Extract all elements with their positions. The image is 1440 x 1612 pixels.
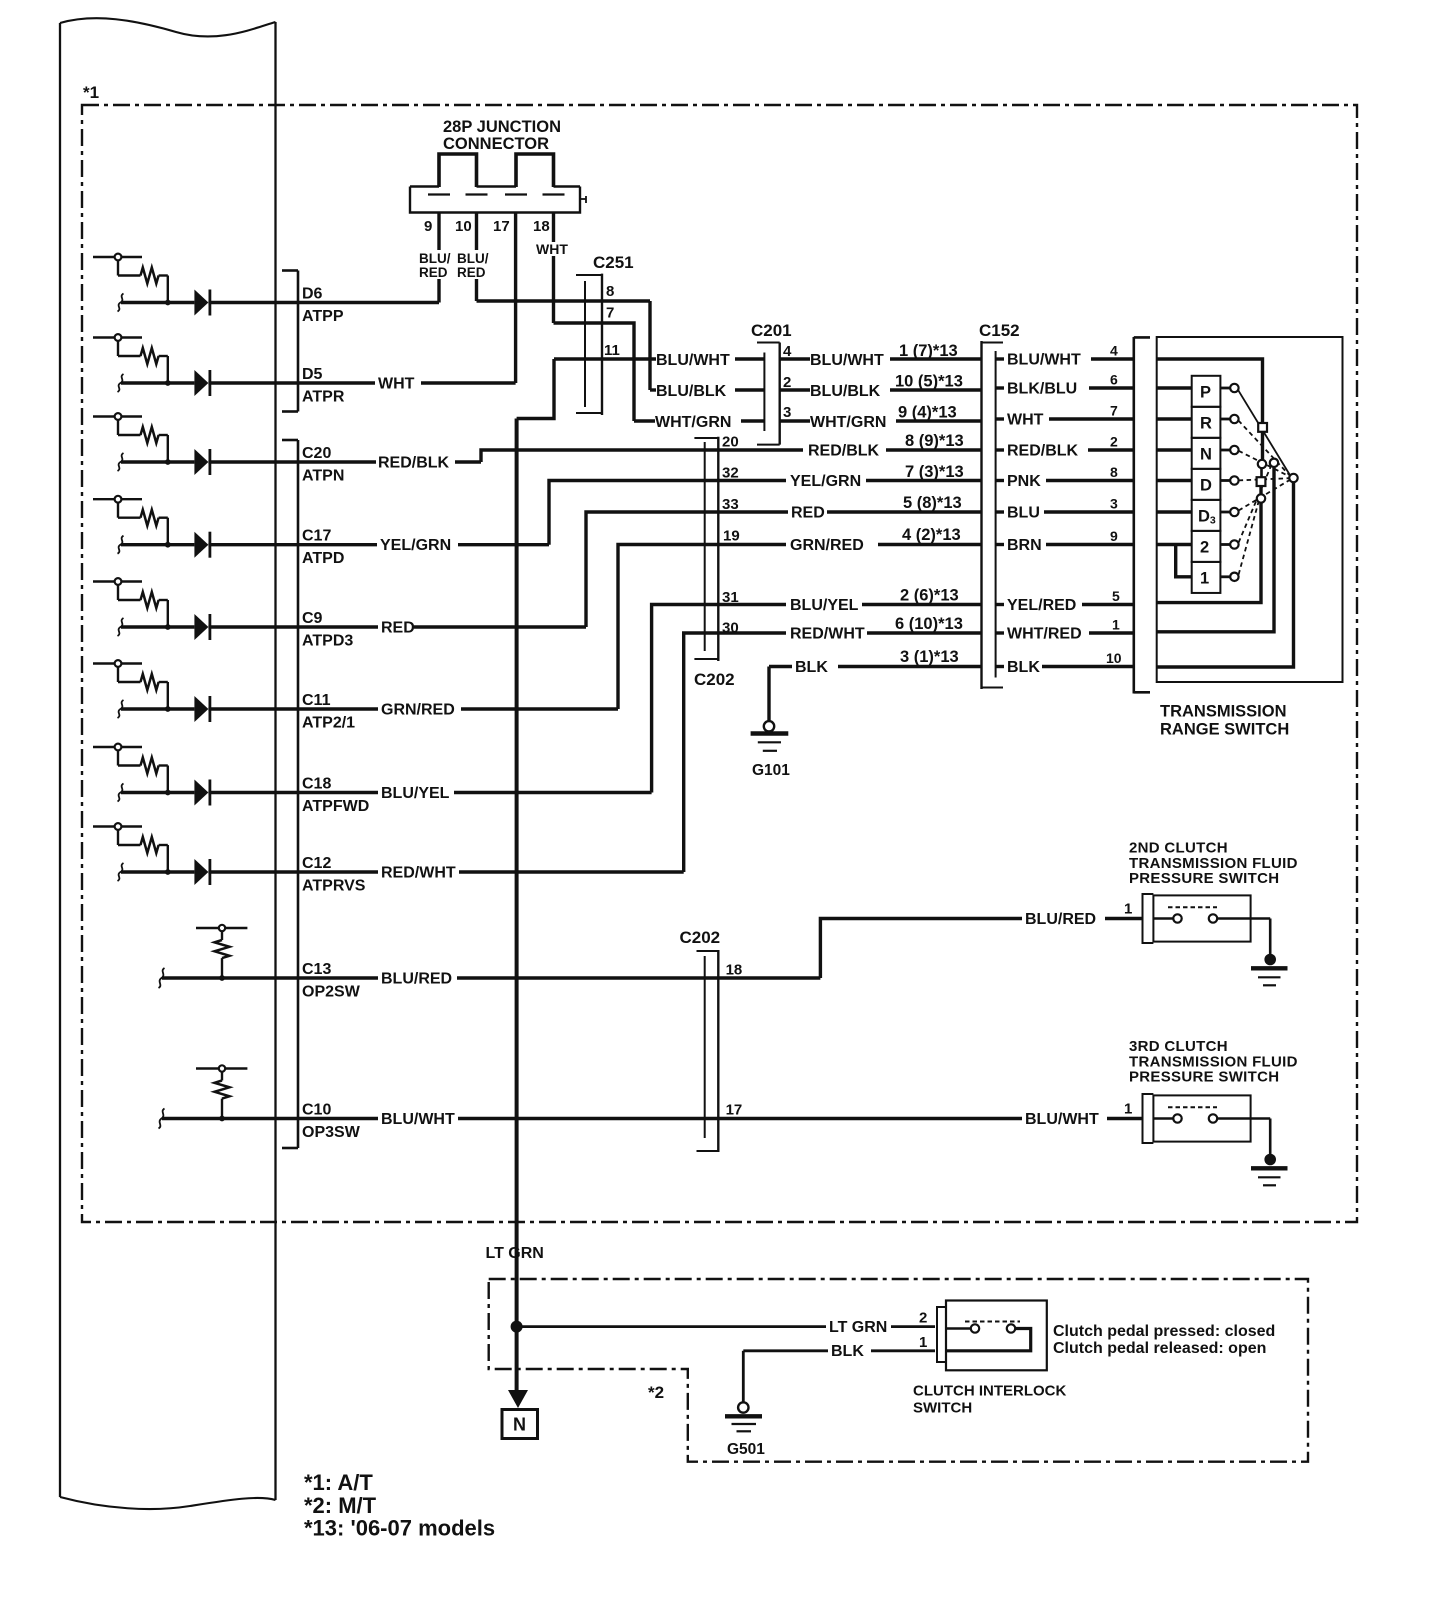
resistor R7 (pull-up, C18) — [141, 758, 159, 774]
svg-text:P: P — [1200, 383, 1211, 401]
wire pin11 jog to trunk — [517, 359, 554, 419]
svg-text:BLU/WHT: BLU/WHT — [1007, 352, 1081, 369]
svg-text:4 (2)*13: 4 (2)*13 — [902, 526, 961, 544]
wire pin9 to ATPP row — [437, 213, 440, 303]
gear box D — [1192, 469, 1221, 500]
terminal circle C11 — [115, 660, 122, 667]
svg-text:C18: C18 — [302, 776, 331, 793]
wire circle-to-resistor C12 — [117, 830, 119, 845]
svg-text:9: 9 — [1110, 528, 1118, 544]
28P junction connector body — [410, 187, 580, 213]
svg-text:ATPR: ATPR — [302, 389, 345, 406]
terminal circle C10 — [219, 1065, 225, 1071]
svg-text:PRESSURE SWITCH: PRESSURE SWITCH — [1129, 870, 1279, 887]
switch arm R (dashed) — [1238, 421, 1290, 476]
svg-text:OP2SW: OP2SW — [302, 984, 361, 1001]
PCM connector bracket (C20..C10) — [297, 440, 300, 1148]
svg-text:3: 3 — [783, 404, 791, 421]
junction node D6 — [165, 300, 171, 306]
wire row C9 (left of diode) — [121, 625, 194, 628]
gear box 1 — [1192, 562, 1221, 593]
ground G101 — [764, 721, 774, 731]
svg-text:17: 17 — [726, 1102, 743, 1119]
resistor R4 (pull-up, C17) — [141, 510, 159, 526]
*1 A/T dash-dot border box — [82, 105, 1357, 1222]
svg-text:RED/WHT: RED/WHT — [790, 626, 865, 643]
wire into D contact — [1157, 479, 1192, 482]
wire circle-to-resistor C13 — [221, 931, 223, 940]
wire-break squiggle D6 — [118, 294, 124, 312]
diode D4 (C17 driver) — [194, 532, 208, 558]
svg-text:C202: C202 — [680, 928, 721, 947]
clutch interlock internal wire pin1 — [946, 1329, 1031, 1351]
svg-text:ATPRVS: ATPRVS — [302, 878, 366, 895]
torn page strip right edge — [274, 22, 276, 1500]
svg-text:28P JUNCTION: 28P JUNCTION — [443, 118, 561, 136]
wire pin1 row (WHT/RED) inside box — [1157, 467, 1274, 632]
wire row C18 (left of diode) — [121, 791, 194, 794]
svg-text:PRESSURE SWITCH: PRESSURE SWITCH — [1129, 1069, 1279, 1086]
wire diode-to-pin C20 — [208, 460, 298, 463]
wire-break squiggle C18 — [118, 784, 124, 802]
svg-text:WHT: WHT — [1007, 412, 1044, 429]
svg-text:2 (6)*13: 2 (6)*13 — [900, 587, 959, 605]
terminal circle C20 — [115, 413, 122, 420]
svg-text:GRN/RED: GRN/RED — [790, 537, 864, 554]
wire circle-to-resistor C11 — [117, 667, 119, 682]
wire GRN/RED row (C11/ATP2-1 to C202-19) — [298, 707, 378, 710]
svg-text:R: R — [1200, 414, 1212, 432]
wire resistor-to-node C11 — [159, 681, 168, 683]
svg-text:LT GRN: LT GRN — [829, 1319, 887, 1336]
wire to ground (3rd clutch sw) — [1269, 1119, 1272, 1156]
wire circle-to-resistor C17 — [117, 503, 119, 518]
diode D6 (C11 driver) — [194, 696, 208, 722]
wire color BRN (C152 pin 9) — [996, 543, 1004, 546]
resistor R2 (pull-up, D5) — [141, 348, 159, 364]
switch arm 1 (dashed) — [1239, 502, 1259, 575]
svg-text:BLU/BLK: BLU/BLK — [810, 383, 881, 400]
wire branch BRN to 1 contact — [1176, 545, 1192, 577]
svg-text:BLU/: BLU/ — [419, 251, 451, 266]
wire diode-to-pin C9 — [208, 625, 298, 628]
svg-text:WHT: WHT — [378, 376, 415, 393]
wire row C17 (left of diode) — [121, 543, 194, 546]
connector C251 — [584, 281, 586, 407]
svg-text:6: 6 — [1110, 372, 1118, 388]
wire diode-to-pin C17 — [208, 543, 298, 546]
wire RED/WHT row (C12/ATPRVS to C202-30) — [298, 870, 378, 873]
wire color WHT/RED (C152 pin 1) — [996, 631, 1004, 634]
switch arm D (dashed) — [1239, 478, 1290, 480]
driver cell D6 pull-up top rail — [93, 256, 142, 258]
wire trunk LT GRN vertical — [515, 419, 519, 1392]
wire BLU/RED row to C251 pin 8 — [477, 299, 651, 302]
svg-text:8: 8 — [1110, 464, 1118, 480]
3rd clutch switch moving contact (dashed) — [1168, 1106, 1217, 1108]
svg-text:20: 20 — [722, 434, 739, 451]
wire diode-to-pin D6 — [208, 301, 298, 304]
PCM connector bracket (D6,D5) — [297, 271, 300, 412]
wire pin18 WHT drop — [552, 213, 555, 323]
junction node C11 — [165, 706, 171, 712]
switch arm D3 (dashed) — [1239, 480, 1290, 511]
gear box P — [1192, 376, 1221, 407]
svg-text:3RD CLUTCH: 3RD CLUTCH — [1129, 1038, 1228, 1055]
resistor R1 (pull-up, D6) — [141, 268, 159, 284]
svg-text:RED/BLK: RED/BLK — [808, 443, 880, 460]
wire row WHT/GRN (C251-7 to C201-3) — [634, 419, 655, 422]
svg-text:N: N — [513, 1415, 526, 1435]
3rd clutch switch connector bracket — [1142, 1093, 1144, 1144]
wire color BLK (C152 pin 10) — [996, 665, 1004, 668]
svg-text:ATPD3: ATPD3 — [302, 633, 353, 650]
svg-text:19: 19 — [723, 528, 740, 545]
junction node C13 — [219, 975, 225, 981]
svg-text:C13: C13 — [302, 961, 331, 978]
wire BLK drop to G501 — [742, 1351, 745, 1403]
wire BLU/RED row (C13/OP2SW) — [298, 976, 378, 979]
connector C152 — [980, 341, 982, 689]
driver cell C12 pull-up top rail — [93, 825, 142, 827]
svg-text:D6: D6 — [302, 286, 323, 303]
svg-text:RED: RED — [381, 620, 415, 637]
svg-text:BLU/: BLU/ — [457, 251, 489, 266]
svg-text:BLU: BLU — [1007, 505, 1040, 522]
wire BLU/YEL row (C18/ATPFWD to C202-31) — [298, 791, 378, 794]
wire resistor-to-node C9 — [159, 599, 168, 601]
resistor R9 (pull-up, C13) — [215, 940, 230, 958]
wire pin5 row (YEL/RED) inside box — [1157, 503, 1261, 603]
svg-text:BLU/YEL: BLU/YEL — [381, 785, 450, 802]
pivot circle I — [1270, 459, 1278, 467]
svg-text:C11: C11 — [302, 692, 331, 709]
wire BLU/WHT row (C10/OP3SW) — [298, 1117, 378, 1120]
wire pivot H to square 2 — [1260, 468, 1263, 477]
diode D5 (C9 driver) — [194, 614, 208, 640]
wire into 2 contact (BRN) — [1157, 543, 1192, 546]
wire circle-to-resistor C10 — [221, 1072, 223, 1081]
svg-text:*2: *2 — [648, 1383, 664, 1402]
terminal circle C18 — [115, 744, 122, 751]
connector C202 (upper) — [704, 442, 706, 651]
pivot circle L — [1257, 494, 1265, 502]
wire resistor-to-node C12 — [159, 844, 168, 846]
wire into D3 contact — [1157, 510, 1192, 513]
wire-break squiggle C12 — [118, 863, 124, 881]
arrow to N — [508, 1390, 528, 1408]
wire row C20 (left of diode) — [121, 460, 194, 463]
resistor R3 (pull-up, C20) — [141, 427, 159, 443]
wire color BLU/WHT (C152 pin 4) — [996, 357, 1004, 360]
wire C251 pin8 drop to BLU/BLK — [648, 301, 651, 390]
switch-sense cell C13 top rail — [196, 927, 247, 929]
wire-break squiggle C20 — [118, 453, 124, 471]
svg-text:10: 10 — [1106, 650, 1122, 666]
svg-text:8 (9)*13: 8 (9)*13 — [905, 432, 964, 450]
svg-text:ATPP: ATPP — [302, 308, 344, 325]
wire into P contact — [1157, 386, 1192, 389]
svg-text:BLU/RED: BLU/RED — [1025, 911, 1096, 928]
2nd clutch switch connector bracket — [1142, 893, 1144, 944]
svg-text:6 (10)*13: 6 (10)*13 — [895, 615, 963, 633]
wire BLK row to clutch interlock switch — [743, 1349, 828, 1352]
svg-text:11: 11 — [604, 342, 620, 359]
svg-text:BLU/WHT: BLU/WHT — [656, 352, 730, 369]
svg-text:2: 2 — [1200, 538, 1209, 556]
driver cell C17 pull-up top rail — [93, 498, 142, 500]
wire row BLU/BLK (C251-8 to C201-2) — [650, 388, 656, 391]
svg-text:C10: C10 — [302, 1102, 331, 1119]
svg-text:BLU/WHT: BLU/WHT — [381, 1111, 455, 1128]
node N box — [502, 1410, 538, 1439]
fixed contact D3 — [1220, 511, 1230, 514]
wire row D5 (left of diode) — [121, 381, 194, 384]
svg-text:PNK: PNK — [1007, 473, 1041, 490]
wire-break squiggle C9 — [118, 618, 124, 636]
wire D6/ATPP row to pin 9 — [298, 301, 439, 304]
switch arm 2 (dashed) — [1239, 466, 1271, 543]
gear box R — [1192, 407, 1221, 438]
wire LT GRN row to clutch interlock switch — [517, 1325, 826, 1328]
wire D5/ATPR WHT row — [298, 381, 375, 384]
junction node D5 — [165, 380, 171, 386]
svg-text:SWITCH: SWITCH — [913, 1400, 972, 1417]
svg-text:18: 18 — [726, 962, 743, 979]
junction connector contact ticks — [428, 193, 450, 195]
gear box N — [1192, 438, 1221, 469]
wire resistor-to-node D6 — [159, 274, 168, 276]
driver cell C18 pull-up top rail — [93, 746, 142, 748]
svg-text:1: 1 — [1112, 617, 1120, 633]
svg-text:5 (8)*13: 5 (8)*13 — [903, 494, 962, 512]
junction connector bridge bus 17-18 — [516, 154, 554, 187]
switch-sense cell C10 top rail — [196, 1067, 247, 1069]
ground (3rd clutch switch) — [1264, 1154, 1276, 1166]
wire color YEL/RED (C152 pin 5) — [996, 603, 1004, 606]
wire resistor-to-node C20 — [159, 434, 168, 436]
svg-text:ATP2/1: ATP2/1 — [302, 715, 355, 732]
range switch connector bracket — [1133, 337, 1136, 694]
junction node C18 — [165, 790, 171, 796]
svg-text:*1: *1 — [83, 83, 99, 102]
wire-break squiggle C17 — [118, 536, 124, 554]
svg-text:ATPFWD: ATPFWD — [302, 798, 369, 815]
junction node C9 — [165, 624, 171, 630]
wire row D6 (left of diode) — [121, 301, 194, 304]
svg-text:3 (1)*13: 3 (1)*13 — [900, 648, 959, 666]
diode D1 (D6 driver) — [194, 290, 208, 316]
wire pin17 drop to ATPR row — [514, 213, 517, 383]
*2 M/T dash-dot border (notched) — [489, 1279, 1308, 1462]
resistor R6 (pull-up, C11) — [141, 674, 159, 690]
resistor R10 (pull-up, C10) — [215, 1081, 230, 1099]
svg-text:BLU/YEL: BLU/YEL — [790, 597, 859, 614]
svg-text:2: 2 — [1110, 434, 1118, 450]
wire resistor-to-node C18 — [159, 764, 168, 766]
wire row C10 — [162, 1117, 298, 1120]
driver cell C9 pull-up top rail — [93, 580, 142, 582]
svg-text:D: D — [1200, 476, 1212, 494]
svg-text:*13: '06-07 models: *13: '06-07 models — [304, 1516, 495, 1541]
svg-text:D5: D5 — [302, 366, 323, 383]
svg-text:BLK: BLK — [831, 1343, 864, 1360]
svg-text:RED/WHT: RED/WHT — [381, 865, 456, 882]
2nd clutch switch moving contact (dashed) — [1168, 906, 1217, 908]
wire WHT/GRN (C201-3 to C152-9) — [780, 419, 810, 422]
svg-text:YEL/RED: YEL/RED — [1007, 597, 1076, 614]
wire C251 pin7 to WHT/GRN — [554, 323, 635, 421]
svg-text:1: 1 — [1200, 569, 1209, 587]
wire row C12 (left of diode) — [121, 870, 194, 873]
svg-text:7: 7 — [606, 305, 614, 322]
svg-text:1 (7)*13: 1 (7)*13 — [899, 342, 958, 360]
svg-text:1: 1 — [1124, 901, 1132, 918]
wire circle-to-resistor D5 — [117, 341, 119, 356]
3rd clutch switch box — [1153, 1095, 1250, 1141]
terminal circle D6 — [115, 254, 122, 261]
moving contact square (P arm) — [1258, 423, 1267, 432]
svg-text:WHT/GRN: WHT/GRN — [810, 414, 886, 431]
terminal circle C12 — [115, 823, 122, 830]
svg-text:RED: RED — [419, 265, 448, 280]
wire BLK drop to G101 — [767, 667, 770, 722]
svg-text:LT GRN: LT GRN — [486, 1245, 544, 1262]
fixed contact 1 — [1220, 575, 1230, 578]
wire into R contact — [1157, 417, 1192, 420]
wire-break squiggle C11 — [118, 700, 124, 718]
wire circle-to-resistor C18 — [117, 750, 119, 765]
wire RED row (C9/ATPD3 to C202-33) — [298, 625, 378, 628]
pivot circle J — [1289, 474, 1297, 482]
svg-text:5: 5 — [1112, 588, 1120, 604]
wire square2 to pivot L — [1259, 486, 1262, 495]
svg-text:G101: G101 — [752, 762, 790, 779]
svg-text:GRN/RED: GRN/RED — [381, 702, 455, 719]
diode D2 (D5 driver) — [194, 370, 208, 396]
junction dot trunk/LT GRN — [511, 1321, 523, 1333]
diode D3 (C20 driver) — [194, 449, 208, 475]
clutch interlock switch box — [946, 1301, 1047, 1371]
svg-text:C12: C12 — [302, 855, 331, 872]
2nd clutch switch contact circles — [1153, 917, 1173, 920]
junction node C17 — [165, 542, 171, 548]
ground (2nd clutch switch) — [1264, 954, 1276, 966]
svg-text:WHT: WHT — [536, 241, 568, 257]
wire BLK row (G101 to C152-3) — [769, 665, 792, 668]
wire circle-to-resistor C9 — [117, 585, 119, 600]
svg-text:30: 30 — [722, 620, 739, 637]
svg-text:RED/BLK: RED/BLK — [378, 455, 450, 472]
svg-text:C251: C251 — [593, 253, 634, 272]
svg-text:CLUTCH INTERLOCK: CLUTCH INTERLOCK — [913, 1383, 1066, 1400]
wire row C11 (left of diode) — [121, 707, 194, 710]
connector C202 (lower) — [704, 956, 706, 1138]
wire to ground (2nd clutch sw) — [1269, 919, 1272, 956]
fixed contact D — [1220, 479, 1230, 482]
svg-text:10: 10 — [455, 218, 472, 235]
svg-text:17: 17 — [493, 218, 510, 235]
svg-text:YEL/GRN: YEL/GRN — [790, 473, 861, 490]
svg-text:BLU/WHT: BLU/WHT — [810, 352, 884, 369]
wire row C13 — [162, 976, 298, 979]
driver cell C11 pull-up top rail — [93, 662, 142, 664]
svg-text:YEL/GRN: YEL/GRN — [380, 537, 451, 554]
wire BLU/BLK (C201-2 to C152-10) — [780, 388, 810, 391]
svg-text:33: 33 — [722, 496, 739, 513]
svg-text:BLU/BLK: BLU/BLK — [656, 383, 727, 400]
driver cell C20 pull-up top rail — [93, 415, 142, 417]
wire resistor-to-node D5 — [159, 355, 168, 357]
svg-text:RED: RED — [457, 265, 486, 280]
clutch interlock moving contact (dashed) — [965, 1321, 1020, 1323]
svg-text:RED: RED — [791, 505, 825, 522]
svg-text:31: 31 — [722, 589, 739, 606]
svg-text:32: 32 — [722, 465, 739, 482]
fixed contact R — [1220, 418, 1230, 421]
gear box D3 — [1192, 500, 1221, 531]
resistor R5 (pull-up, C9) — [141, 592, 159, 608]
svg-text:BRN: BRN — [1007, 537, 1042, 554]
wire YEL/GRN row (C17/ATPD to C202-32) — [298, 543, 377, 546]
wire circle-to-resistor C20 — [117, 420, 119, 435]
resistor R8 (pull-up, C12) — [141, 837, 159, 853]
wire diode-to-pin D5 — [208, 381, 298, 384]
wire BLU/WHT (C201-4 to C152-1) — [780, 357, 810, 360]
svg-text:1: 1 — [919, 1334, 927, 1351]
gear box 2 — [1192, 531, 1221, 562]
svg-text:OP3SW: OP3SW — [302, 1124, 361, 1141]
torn page strip bottom wavy edge — [60, 1497, 276, 1509]
svg-text:BLU/RED: BLU/RED — [381, 971, 452, 988]
wire square to pivot H — [1261, 432, 1264, 460]
svg-text:10 (5)*13: 10 (5)*13 — [895, 373, 963, 391]
transmission range switch box — [1157, 337, 1343, 682]
svg-text:2: 2 — [919, 1310, 927, 1327]
junction connector right notch — [580, 198, 586, 200]
driver cell D5 pull-up top rail — [93, 336, 142, 338]
diode D8 (C12 driver) — [194, 859, 208, 885]
wire diode-to-pin C12 — [208, 870, 298, 873]
wire color BLK/BLU (C152 pin 6) — [996, 386, 1004, 389]
svg-text:C152: C152 — [979, 321, 1020, 340]
junction connector bridge bus 9-10 — [439, 154, 477, 187]
svg-text:Clutch pedal released: open: Clutch pedal released: open — [1053, 1340, 1266, 1357]
svg-text:9 (4)*13: 9 (4)*13 — [898, 404, 957, 422]
wire diode-to-pin C18 — [208, 791, 298, 794]
svg-text:Clutch pedal pressed: closed: Clutch pedal pressed: closed — [1053, 1323, 1275, 1340]
torn page strip top wavy edge — [60, 18, 276, 36]
svg-text:C202: C202 — [694, 670, 735, 689]
clutch interlock switch connector bracket — [936, 1306, 938, 1363]
wire pin4 into moving contact — [1157, 359, 1263, 423]
fixed contact N — [1220, 449, 1230, 452]
svg-text:BLK: BLK — [1007, 659, 1040, 676]
wire into N contact — [1157, 448, 1192, 451]
svg-text:RED/BLK: RED/BLK — [1007, 443, 1079, 460]
svg-text:BLK/BLU: BLK/BLU — [1007, 381, 1077, 398]
wire color RED/BLK (C152 pin 2) — [996, 448, 1004, 451]
svg-text:2ND CLUTCH: 2ND CLUTCH — [1129, 840, 1228, 857]
2nd clutch switch box — [1153, 895, 1250, 941]
wire-break squiggle C10 — [159, 1109, 165, 1129]
svg-text:C9: C9 — [302, 610, 323, 627]
terminal circle C17 — [115, 496, 122, 503]
svg-text:WHT/GRN: WHT/GRN — [655, 414, 731, 431]
svg-text:WHT/RED: WHT/RED — [1007, 626, 1082, 643]
svg-text:1: 1 — [1124, 1101, 1132, 1118]
fixed contact P — [1220, 387, 1230, 390]
